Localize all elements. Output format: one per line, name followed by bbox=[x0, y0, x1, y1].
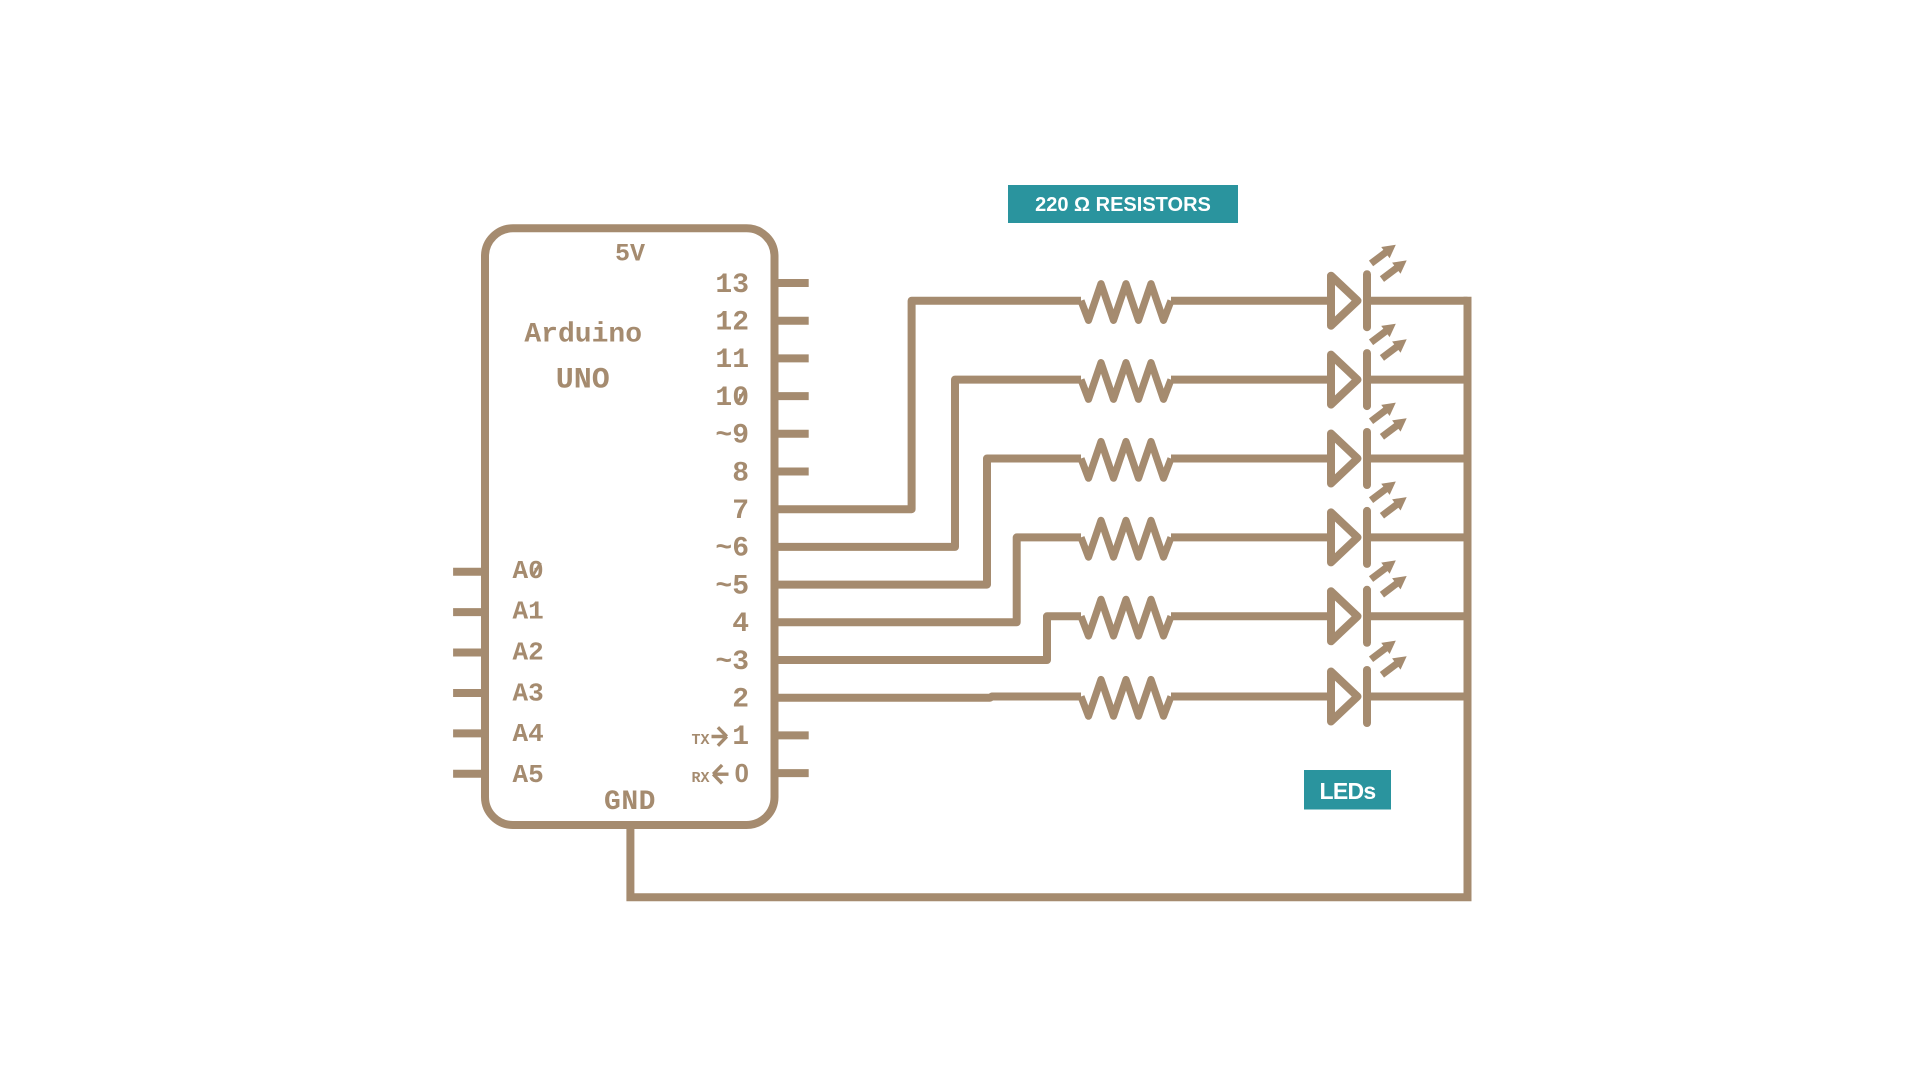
wire LED5 cathode to ground bus bbox=[1367, 612, 1468, 620]
svg-text:Arduino: Arduino bbox=[524, 320, 642, 351]
resistor R3 (220 ohm) bbox=[1081, 442, 1171, 479]
wire R2 to LED2 bbox=[1171, 376, 1331, 384]
pin stub (right, pin 11) bbox=[771, 354, 809, 362]
pin label 4 bbox=[732, 609, 749, 640]
pin label ~3 bbox=[715, 647, 749, 678]
pin stub (right, pin ~9) bbox=[771, 430, 809, 438]
resistor R4 (220 ohm) bbox=[1081, 520, 1171, 557]
pin label A3 bbox=[513, 678, 544, 708]
pin label 10 bbox=[715, 383, 749, 414]
pin stub (right, pin 0) bbox=[771, 769, 809, 777]
svg-text:4: 4 bbox=[732, 609, 749, 640]
svg-text:LEDs: LEDs bbox=[1320, 778, 1376, 804]
pin label 0 bbox=[735, 758, 749, 788]
pin stub A5 (left) bbox=[453, 770, 489, 778]
pin label 5V bbox=[615, 240, 645, 269]
svg-text:1: 1 bbox=[732, 722, 749, 753]
pin label A1 bbox=[513, 597, 544, 627]
board name Arduino bbox=[524, 320, 642, 351]
wire LED3 cathode to ground bus bbox=[1367, 455, 1468, 463]
LED D1 bbox=[1331, 239, 1411, 327]
pin label 2 bbox=[732, 685, 749, 716]
svg-text:GND: GND bbox=[604, 787, 656, 818]
wire R5 to LED5 bbox=[1171, 612, 1331, 620]
pin stub (right, pin 1) bbox=[771, 731, 809, 739]
svg-text:A5: A5 bbox=[513, 760, 544, 790]
svg-text:220 Ω RESISTORS: 220 Ω RESISTORS bbox=[1035, 194, 1211, 216]
wire pin 3 to R5 bbox=[771, 616, 1081, 660]
svg-text:~9: ~9 bbox=[715, 421, 749, 452]
wire LED6 cathode to ground bus bbox=[1367, 693, 1468, 701]
pin stub A2 (left) bbox=[453, 649, 489, 657]
resistor R6 (220 ohm) bbox=[1081, 680, 1171, 717]
resistor R1 (220 ohm) bbox=[1081, 284, 1171, 321]
pin label A2 bbox=[513, 638, 544, 668]
svg-text:UNO: UNO bbox=[556, 364, 610, 398]
wire R4 to LED4 bbox=[1171, 533, 1331, 541]
svg-text:8: 8 bbox=[732, 458, 749, 489]
LED D6 bbox=[1331, 635, 1411, 723]
pin stub A4 (left) bbox=[453, 729, 489, 737]
pin stub (right, pin 8) bbox=[771, 468, 809, 476]
resistor R2 (220 ohm) bbox=[1081, 363, 1171, 400]
label: 220 Ω RESISTORS bbox=[1008, 185, 1238, 223]
pin stub (right, pin 13) bbox=[771, 279, 809, 287]
pin stub (right, pin 10) bbox=[771, 392, 809, 400]
svg-text:12: 12 bbox=[715, 308, 749, 339]
pin stub A0 (left) bbox=[453, 568, 489, 576]
pin label 7 bbox=[732, 496, 749, 527]
svg-text:10: 10 bbox=[715, 383, 749, 414]
label: LEDs bbox=[1304, 770, 1391, 810]
slashed zero of pin A0 bbox=[533, 563, 541, 576]
TX arrow (right) bbox=[712, 727, 727, 745]
pin stub (right, pin 12) bbox=[771, 317, 809, 325]
svg-text:7: 7 bbox=[732, 496, 749, 527]
wire R1 to LED1 bbox=[1171, 297, 1331, 305]
wire LED4 cathode to ground bus bbox=[1367, 533, 1468, 541]
svg-text:~3: ~3 bbox=[715, 647, 749, 678]
LED D3 bbox=[1331, 397, 1411, 485]
pin label ~6 bbox=[715, 534, 749, 565]
wire R3 to LED3 bbox=[1171, 455, 1331, 463]
svg-text:~5: ~5 bbox=[715, 571, 749, 602]
wire pin 5 to R3 bbox=[771, 459, 1081, 585]
svg-text:A2: A2 bbox=[513, 638, 544, 668]
svg-text:2: 2 bbox=[732, 685, 749, 716]
wire pin 2 to R6 bbox=[771, 697, 1081, 698]
wire LED1 cathode to ground bus bbox=[1367, 297, 1468, 305]
wire pin 6 to R2 bbox=[771, 380, 1081, 547]
resistor R5 (220 ohm) bbox=[1081, 599, 1171, 636]
pin label ~5 bbox=[715, 571, 749, 602]
LED D2 bbox=[1331, 318, 1411, 406]
ground bus (cathode return to GND) bbox=[630, 297, 1467, 898]
RX arrow (left) bbox=[713, 765, 728, 783]
LED D4 bbox=[1331, 476, 1411, 564]
wire R6 to LED6 bbox=[1171, 693, 1331, 701]
pin stub A1 (left) bbox=[453, 608, 489, 616]
svg-text:A4: A4 bbox=[513, 719, 544, 749]
slashed zero of pin 10 bbox=[738, 390, 745, 402]
svg-text:13: 13 bbox=[715, 270, 749, 301]
svg-text:5V: 5V bbox=[615, 240, 645, 269]
pin label 1 bbox=[732, 722, 749, 753]
svg-text:A1: A1 bbox=[513, 597, 544, 627]
wire pin 4 to R4 bbox=[771, 537, 1081, 622]
pin stub A3 (left) bbox=[453, 689, 489, 697]
svg-text:~6: ~6 bbox=[715, 534, 749, 565]
pin label TX bbox=[691, 732, 709, 749]
wire LED2 cathode to ground bus bbox=[1367, 376, 1468, 384]
pin label 8 bbox=[732, 458, 749, 489]
pin label A4 bbox=[513, 719, 544, 749]
pin label 13 bbox=[715, 270, 749, 301]
pin label ~9 bbox=[715, 421, 749, 452]
pin label A5 bbox=[513, 760, 544, 790]
LED D5 bbox=[1331, 555, 1411, 643]
svg-text:A3: A3 bbox=[513, 678, 544, 708]
svg-text:TX: TX bbox=[691, 732, 709, 749]
pin label A0 bbox=[513, 556, 544, 586]
pin label RX bbox=[691, 770, 709, 787]
Arduino UNO board U1 (body outline) bbox=[485, 228, 775, 825]
svg-text:A0: A0 bbox=[513, 556, 544, 586]
pin label GND bbox=[604, 787, 656, 818]
board name UNO bbox=[556, 364, 610, 398]
svg-text:RX: RX bbox=[691, 770, 709, 787]
svg-text:11: 11 bbox=[715, 345, 749, 376]
svg-text:0: 0 bbox=[735, 758, 749, 788]
pin label 11 bbox=[715, 345, 749, 376]
wire pin 7 to R1 bbox=[771, 301, 1081, 510]
pin label 12 bbox=[715, 308, 749, 339]
